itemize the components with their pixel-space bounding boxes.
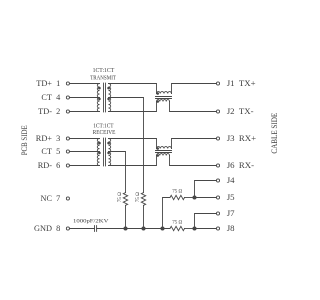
- pin J6 RX-: [216, 160, 254, 170]
- svg-text:NC: NC: [40, 194, 52, 203]
- svg-text:RD-: RD-: [38, 161, 53, 170]
- wire node to J5: [195, 197, 217, 199]
- pin J4: [216, 175, 235, 185]
- svg-text:5: 5: [56, 147, 60, 156]
- svg-text:1: 1: [56, 79, 60, 88]
- svg-text:1CT:1CT: 1CT:1CT: [93, 67, 115, 74]
- svg-text:CT: CT: [41, 147, 52, 156]
- wire GND to C1: [70, 228, 95, 230]
- wire choke L1 to J1: [172, 84, 217, 94]
- wire T2 center tap to R1: [109, 152, 126, 193]
- svg-text:GND: GND: [34, 224, 52, 233]
- pin 2 TD-: [38, 107, 69, 116]
- capacitor C1 1000pF/2KV: [73, 218, 109, 231]
- wire T2 secondary bottom to choke L2: [109, 156, 157, 166]
- wire T2 secondary top to choke L2: [109, 139, 157, 149]
- svg-text:TD-: TD-: [38, 107, 52, 116]
- svg-text:J4: J4: [227, 175, 235, 185]
- wire riser to R3: [163, 198, 171, 229]
- pin 3 RD+: [36, 134, 70, 143]
- pin J2 TX-: [216, 106, 253, 116]
- svg-text:J1 TX+: J1 TX+: [227, 78, 256, 88]
- resistor R4 75 Ohm horizontal: [170, 220, 185, 231]
- transformer T2 1CT:1CT RECEIVE: [93, 123, 116, 166]
- ground bus wire: [97, 228, 170, 230]
- svg-text:75 Ω: 75 Ω: [135, 192, 141, 202]
- svg-text:75 Ω: 75 Ω: [172, 189, 182, 195]
- svg-text:RD+: RD+: [36, 134, 53, 143]
- wire TD- to T1: [70, 111, 100, 113]
- svg-text:J2 TX-: J2 TX-: [227, 106, 254, 116]
- wire node to J7: [195, 214, 217, 229]
- svg-text:J8: J8: [227, 223, 235, 233]
- junction dot riser/gnd: [161, 227, 165, 231]
- pin J8: [216, 223, 235, 233]
- svg-text:75 Ω: 75 Ω: [117, 192, 123, 202]
- pin J5: [216, 192, 235, 202]
- wire CT5 to T2 center tap: [70, 151, 100, 153]
- svg-text:6: 6: [56, 161, 60, 170]
- junction dot R1/gnd: [124, 227, 128, 231]
- wire R4 to node: [185, 228, 195, 230]
- pin 7 NC: [40, 194, 69, 203]
- wire RD+ to T2: [70, 138, 100, 140]
- wire T1 center tap to R2: [109, 98, 144, 193]
- wire TD+ to T1: [70, 83, 100, 85]
- junction dot R2/gnd: [142, 227, 146, 231]
- svg-text:7: 7: [56, 194, 60, 203]
- svg-text:PCB SIDE: PCB SIDE: [19, 125, 29, 155]
- svg-text:TD+: TD+: [36, 79, 52, 88]
- svg-text:2: 2: [56, 107, 60, 116]
- choke L2: [156, 147, 172, 157]
- svg-text:J7: J7: [227, 208, 235, 218]
- svg-text:CABLE SIDE: CABLE SIDE: [269, 113, 279, 154]
- wire choke L2 to J6: [170, 156, 217, 166]
- svg-text:1000pF/2KV: 1000pF/2KV: [73, 218, 109, 224]
- wire R2 to ground bus: [143, 205, 145, 228]
- junction dot node J4/J5: [193, 196, 197, 200]
- pin 8 GND: [34, 224, 69, 233]
- wire node to J4: [195, 181, 217, 198]
- transformer T1 1CT:1CT TRANSMIT: [90, 67, 116, 112]
- wire R1 to ground bus: [125, 205, 127, 228]
- wire R3 to node: [185, 197, 195, 199]
- wire choke L1 to J2: [170, 102, 217, 112]
- svg-text:RECEIVE: RECEIVE: [93, 129, 116, 136]
- svg-text:75 Ω: 75 Ω: [172, 220, 182, 226]
- wire node to J8: [195, 228, 217, 230]
- svg-text:J6 RX-: J6 RX-: [227, 160, 254, 170]
- resistor R3 75 Ohm horizontal: [170, 189, 185, 200]
- pin 6 RD-: [38, 161, 70, 170]
- pin 1 TD+: [36, 79, 69, 88]
- junction dot node J7/J8: [193, 227, 197, 231]
- wire T1 secondary top to choke L1: [109, 84, 157, 94]
- wire T1 secondary bottom to choke L1: [109, 102, 157, 112]
- svg-text:J3 RX+: J3 RX+: [227, 133, 256, 143]
- wire CT4 to T1 center tap: [70, 97, 100, 99]
- pin J3 RX+: [216, 133, 256, 143]
- wire RD- to T2: [70, 165, 100, 167]
- wire choke L2 to J3: [172, 139, 217, 149]
- svg-text:TRANSMIT: TRANSMIT: [90, 75, 116, 82]
- svg-text:4: 4: [56, 93, 61, 102]
- pin 5 CT: [41, 147, 69, 156]
- svg-text:CT: CT: [41, 93, 52, 102]
- pin J1 TX+: [216, 78, 255, 88]
- svg-text:J5: J5: [227, 192, 235, 202]
- resistor R2 75 Ohm vertical: [135, 192, 146, 205]
- svg-text:3: 3: [56, 134, 60, 143]
- svg-text:8: 8: [56, 224, 60, 233]
- pin 4 CT: [41, 93, 69, 102]
- resistor R1 75 Ohm vertical: [117, 192, 128, 205]
- pin J7: [216, 208, 235, 218]
- choke L1: [156, 92, 172, 103]
